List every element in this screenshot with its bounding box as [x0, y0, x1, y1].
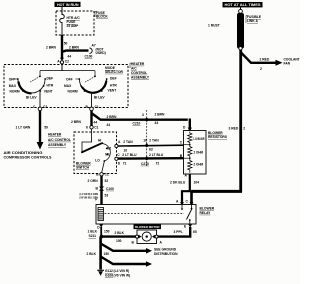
svg-text:HTR: HTR [110, 83, 117, 87]
label MODE SELECTOR [105, 66, 124, 74]
wire 1 LT GRN to compressor controls [4, 111, 53, 160]
svg-text:C2: C2 [65, 60, 69, 64]
wire 2 DK BLU resistor A to relay A [170, 173, 199, 204]
blower resistors box [184, 131, 207, 175]
label HEATER A/C CONTROL ASSEMBLY (blower switch) [48, 133, 71, 147]
svg-text:150: 150 [104, 229, 110, 233]
node 6 C1 blower switch entry [86, 125, 99, 129]
wire tap to ground distribution 1 [101, 244, 178, 257]
blower motor M1 [132, 230, 163, 244]
wire into resistor D [183, 119, 192, 131]
svg-text:ASSEMBLY: ASSEMBLY [131, 75, 150, 79]
wire label-to-fuse [61, 7, 63, 15]
svg-text:BLOCK: BLOCK [96, 15, 108, 19]
svg-text:53: 53 [105, 193, 109, 197]
svg-text:2 OHM: 2 OHM [194, 163, 204, 167]
blower switch dashed box [74, 132, 117, 174]
label BLOWER RELAY [200, 206, 215, 214]
svg-text:HOT AT ALL TIMES: HOT AT ALL TIMES [225, 3, 262, 7]
svg-text:3: 3 [142, 113, 144, 117]
svg-text:S211: S211 [89, 234, 97, 238]
svg-text:65: 65 [193, 230, 197, 234]
svg-text:HOT IN RUN: HOT IN RUN [57, 3, 79, 7]
svg-text:3 PPL: 3 PPL [174, 230, 183, 234]
svg-text:2 BRN: 2 BRN [46, 46, 57, 50]
label HOT IN RUN [55, 2, 81, 7]
relay switch contacts [176, 200, 194, 224]
svg-text:C210: C210 [133, 121, 141, 125]
svg-text:HEATER: HEATER [48, 133, 62, 137]
fuse HTR A/C 25A [60, 15, 81, 36]
svg-text:RELAY: RELAY [200, 211, 212, 215]
svg-text:HEATER: HEATER [131, 62, 145, 66]
switch S3 blower switch [81, 129, 111, 172]
svg-text:DISTRIBUTION: DISTRIBUTION [154, 252, 178, 256]
switch S1 mode selector left gang [9, 76, 54, 99]
svg-text:DEF: DEF [47, 77, 54, 81]
svg-text:G106: G106 [105, 273, 113, 277]
svg-text:2: 2 [243, 127, 245, 131]
resistor R1 LO BLWR [188, 132, 205, 145]
svg-text:44: 44 [68, 54, 72, 58]
wire 2 TAN output A [115, 139, 184, 152]
connector C210 beads [145, 118, 148, 122]
svg-text:AIR CONDITIONING: AIR CONDITIONING [4, 151, 43, 155]
wire branch to C100 (not used) [62, 43, 106, 58]
svg-text:FAN: FAN [284, 62, 291, 66]
svg-text:2 OHM: 2 OHM [194, 150, 204, 154]
svg-text:MAX: MAX [9, 84, 17, 88]
svg-text:C1: C1 [105, 173, 109, 177]
heater a/c control assembly dashed box (mode selector) [4, 65, 128, 108]
wire 2 BRN branch to resistors [92, 113, 188, 128]
svg-text:2 LT BLU: 2 LT BLU [149, 153, 164, 157]
wire 1 BLK relay D to S211 [88, 225, 110, 237]
resistor R3 [188, 158, 204, 173]
svg-text:M1: M1 [105, 153, 110, 157]
svg-text:NORM: NORM [10, 90, 20, 94]
svg-text:1 LT GRN: 1 LT GRN [16, 125, 31, 129]
svg-text:USED): USED) [96, 51, 106, 55]
svg-text:25 AMP: 25 AMP [67, 24, 80, 28]
relay coil [98, 208, 104, 221]
wire 2 BLK S211 to motor [102, 231, 136, 243]
wire 3 PPL relay E to motor [157, 225, 197, 237]
relay armature dashed link [105, 213, 185, 215]
svg-text:2 BLK: 2 BLK [87, 252, 97, 256]
svg-text:CONTROL: CONTROL [131, 71, 147, 75]
svg-text:BLOWER MOTOR: BLOWER MOTOR [135, 225, 160, 229]
svg-text:ASSEMBLY: ASSEMBLY [48, 143, 67, 147]
svg-text:(V6 VIN W): (V6 VIN W) [114, 273, 131, 277]
svg-text:LINK A: LINK A [247, 19, 258, 23]
svg-text:BI LEV: BI LEV [26, 95, 37, 99]
label HEATER A/C CONTROL ASSEMBLY (right) [130, 62, 150, 80]
wire 2 RED to coolant fan [241, 50, 300, 71]
svg-text:HTR: HTR [47, 83, 54, 87]
svg-text:BLOWER: BLOWER [200, 206, 215, 210]
svg-text:3 RED: 3 RED [229, 127, 239, 131]
svg-text:1 BLK: 1 BLK [88, 229, 98, 233]
svg-text:C2: C2 [43, 105, 47, 109]
svg-text:44: 44 [155, 121, 159, 125]
label BLOWER RESISTORS [208, 131, 228, 139]
svg-text:104: 104 [194, 181, 200, 185]
wire trunk bar to relay C [191, 191, 242, 205]
resistor taps C and B [180, 141, 191, 159]
svg-text:OFF: OFF [9, 77, 16, 81]
svg-text:MAX: MAX [64, 84, 72, 88]
svg-text:10: 10 [124, 149, 128, 153]
fusible link A [208, 7, 262, 50]
svg-text:2 TAN: 2 TAN [149, 139, 159, 143]
svg-text:BI LEV: BI LEV [94, 95, 105, 99]
svg-text:2 BLK: 2 BLK [115, 231, 125, 235]
svg-text:72: 72 [156, 161, 160, 165]
svg-text:1 RUST: 1 RUST [208, 24, 220, 28]
svg-text:2 BRN: 2 BRN [155, 113, 166, 117]
svg-text:2 DK BLU: 2 DK BLU [170, 181, 186, 185]
node S211 [89, 234, 104, 238]
svg-text:SEE GROUND: SEE GROUND [154, 247, 177, 251]
svg-text:SWITCH: SWITCH [76, 165, 90, 169]
label BLOWER MOTOR [134, 224, 162, 229]
svg-text:M2: M2 [107, 146, 112, 150]
wire main trunk 3 RED [229, 50, 246, 192]
svg-text:BLOWER: BLOWER [208, 131, 223, 135]
resistor R2 [188, 145, 204, 159]
svg-text:63: 63 [149, 148, 153, 152]
wire 2 BRN down to blower switch [71, 111, 97, 126]
svg-text:71: 71 [123, 162, 127, 166]
svg-text:6: 6 [86, 125, 88, 129]
svg-text:SELECTOR: SELECTOR [105, 70, 124, 74]
wire tap to ground distribution 2 [101, 257, 152, 267]
label FUSE BLOCK [95, 11, 108, 19]
svg-text:VENT: VENT [44, 90, 53, 94]
svg-text:A/C CONTROL: A/C CONTROL [48, 138, 71, 142]
svg-text:2 LT BLU: 2 LT BLU [122, 153, 137, 157]
svg-text:C100: C100 [106, 187, 114, 191]
svg-text:52: 52 [105, 179, 109, 183]
wire 2 LT BLU output C [115, 149, 184, 166]
svg-text:HI: HI [98, 138, 101, 142]
svg-text:F: F [95, 197, 97, 201]
wire ground trunk [87, 237, 110, 270]
svg-text:44: 44 [107, 123, 111, 127]
svg-text:2: 2 [260, 67, 262, 71]
svg-text:2 BRN: 2 BRN [69, 45, 80, 49]
label HOT AT ALL TIMES [223, 2, 263, 7]
svg-text:2 RED: 2 RED [260, 58, 270, 62]
blower relay box [96, 205, 196, 225]
wire 2 ORN blower switch to relay coil [80, 173, 115, 205]
wire S1 to exit C C2 [33, 92, 47, 111]
svg-text:C1: C1 [94, 125, 98, 129]
node A C2 junction [57, 58, 69, 64]
wire 2 BRN 50 from fuse [46, 35, 68, 59]
svg-text:2 BRN: 2 BRN [107, 115, 118, 119]
svg-text:50: 50 [64, 42, 68, 46]
label BLOWER SWITCH [76, 162, 91, 170]
svg-text:16: 16 [143, 139, 147, 143]
svg-text:A/C: A/C [131, 66, 137, 70]
svg-text:VENT: VENT [108, 89, 117, 93]
svg-text:2 TAN: 2 TAN [123, 140, 133, 144]
connector C100 inline [99, 187, 105, 191]
svg-text:LO: LO [95, 159, 100, 163]
connector C210 dashed line [146, 110, 148, 166]
svg-text:(L4 VIN R) 3 ORN: (L4 VIN R) 3 ORN [80, 192, 99, 196]
switch S2 mode selector right gang [64, 76, 117, 99]
wire S2 to exit B C1 [86, 94, 99, 111]
svg-text:DEF: DEF [110, 77, 117, 81]
svg-text:C1: C1 [95, 105, 99, 109]
fuse block dashed box [56, 11, 94, 35]
svg-text:150: 150 [104, 252, 110, 256]
svg-text:59: 59 [44, 125, 48, 129]
svg-text:2 BRN: 2 BRN [71, 120, 82, 124]
svg-text:150: 150 [116, 239, 122, 243]
svg-text:NORM: NORM [68, 90, 78, 94]
svg-text:2 ORN: 2 ORN [88, 179, 99, 183]
svg-text:LO BLWR: LO BLWR [194, 137, 205, 141]
svg-text:COMPRESSOR CONTROLS: COMPRESSOR CONTROLS [4, 155, 53, 159]
svg-text:OFF: OFF [66, 77, 73, 81]
svg-text:C210: C210 [141, 162, 149, 166]
ground G112/G106 [97, 269, 130, 277]
svg-text:RESISTORS: RESISTORS [208, 135, 228, 139]
svg-text:44: 44 [94, 121, 98, 125]
wire feed into switches [39, 64, 96, 77]
svg-text:C100: C100 [85, 55, 93, 59]
